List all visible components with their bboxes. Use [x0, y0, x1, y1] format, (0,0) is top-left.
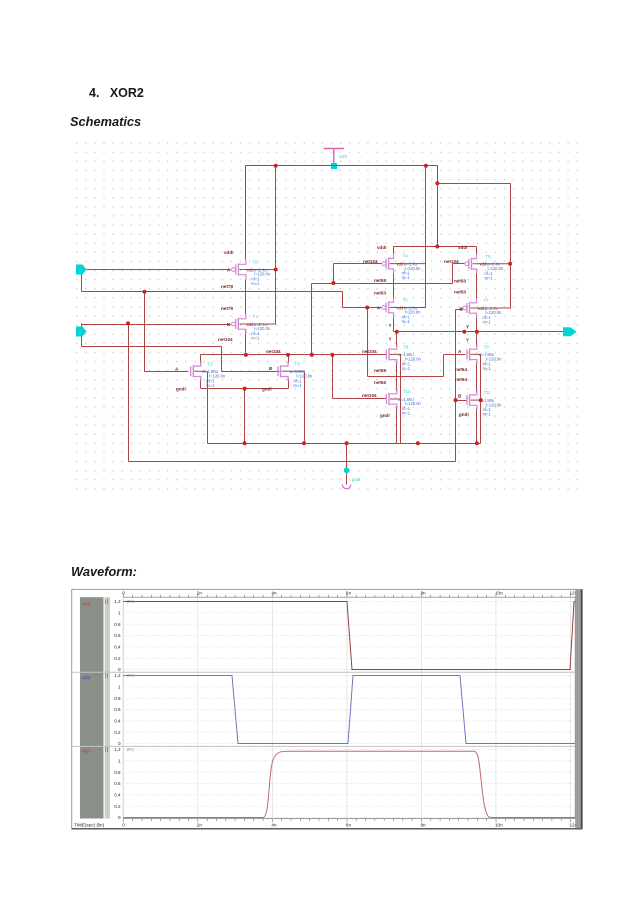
- svg-text:Y: Y: [389, 323, 392, 328]
- svg-text:m=1: m=1: [402, 275, 411, 280]
- svg-text:10n: 10n: [495, 823, 503, 828]
- svg-text:vdd!: vdd!: [458, 245, 468, 250]
- svg-text:m=1: m=1: [402, 319, 411, 324]
- wire T2/T3 source bus: [201, 388, 289, 390]
- trace v(y) (red, bottom plot): [123, 751, 575, 817]
- svg-text:net104: net104: [362, 393, 377, 398]
- wire T6 src to Y: [393, 316, 395, 332]
- node vdd rail / bulk riser 1 (junction dot): [274, 164, 278, 168]
- wire T11 source to gnd: [476, 408, 478, 444]
- wire bulk riser T0/T1: [275, 166, 277, 325]
- svg-text:0.4: 0.4: [114, 718, 121, 723]
- transistor T4 (PMOS): [382, 254, 426, 281]
- svg-text:0: 0: [122, 591, 125, 596]
- svg-text:T8: T8: [403, 344, 409, 349]
- wire T4 gate riser: [333, 264, 335, 284]
- node vdd rail / bulk riser 2 (junction dot): [424, 164, 428, 168]
- wire A drop: [81, 270, 83, 292]
- svg-text:0: 0: [118, 667, 121, 672]
- trace v(b) (blue, middle plot): [123, 676, 575, 744]
- wire T5 drain: [476, 247, 478, 257]
- wire net55/56 T8.src-T10.drn: [396, 362, 398, 392]
- svg-text:m=1: m=1: [485, 275, 494, 280]
- wire T5 gate riser: [452, 264, 454, 284]
- svg-text:Y: Y: [466, 325, 469, 330]
- svg-text:6n: 6n: [346, 823, 352, 828]
- wire output Y rail: [394, 331, 564, 333]
- svg-text:vdd!: vdd!: [377, 245, 387, 250]
- wire A riser to T9: [443, 355, 445, 377]
- svg-text:T3: T3: [295, 361, 301, 366]
- svg-text:0.2: 0.2: [114, 730, 121, 735]
- node T2/T3 source tee (junction dot): [243, 387, 247, 391]
- svg-text:net54: net54: [455, 367, 467, 372]
- svg-text:m=1: m=1: [402, 366, 411, 371]
- transistor T9 (NMOS): [467, 344, 502, 371]
- svg-text:gnd!: gnd!: [352, 477, 360, 482]
- wire B long riser down: [128, 324, 130, 462]
- wire T3 drain: [288, 355, 290, 364]
- svg-text:1.2: 1.2: [114, 599, 121, 604]
- transistor T11 (NMOS): [467, 390, 502, 417]
- svg-text:T11: T11: [484, 390, 492, 395]
- wire T2 drain: [200, 355, 202, 364]
- wire A drop to T6: [342, 292, 344, 308]
- svg-text:m=1: m=1: [251, 281, 260, 286]
- wire B horizontal to T3: [82, 346, 222, 348]
- node net B tee (junction dot): [126, 321, 130, 325]
- wire T11 gate wire: [456, 400, 467, 402]
- wire B riser to T7/T11: [455, 310, 457, 462]
- time axis labels and ticks: [74, 591, 578, 828]
- wire T3 gate wire: [222, 371, 280, 373]
- wire gnd symbol stem: [346, 444, 348, 485]
- node gnd symbol tap (junction dot): [345, 441, 349, 445]
- svg-text:1: 1: [118, 758, 121, 763]
- wire bulk riser T4/T6: [425, 166, 427, 308]
- wire T10 gate wire: [333, 398, 387, 400]
- svg-text:m=1: m=1: [483, 320, 492, 325]
- pin A (input, left top): [76, 265, 87, 275]
- wire T4 gate wire: [334, 263, 385, 265]
- wire T9 gate wire: [444, 354, 466, 356]
- svg-text:TIME(sec) (lin): TIME(sec) (lin): [74, 823, 105, 828]
- svg-text:0.6: 0.6: [114, 781, 121, 786]
- wire net53 T4.src-T6.drn: [393, 272, 395, 301]
- wire net104 drop to T10: [332, 355, 334, 399]
- wire net104 drop from T1: [245, 330, 247, 355]
- svg-text:1: 1: [118, 610, 121, 615]
- plot row separators: [72, 671, 583, 673]
- svg-text:2n: 2n: [197, 823, 203, 828]
- wire T3 source: [288, 379, 290, 389]
- wire T10 source to gnd: [396, 407, 398, 444]
- node T4 gate tap (junction dot): [331, 281, 335, 285]
- wire T7 src to Y: [476, 316, 478, 332]
- svg-text:vdd!: vdd!: [339, 154, 347, 159]
- svg-text:0: 0: [118, 741, 121, 746]
- transistor T8 (NMOS): [386, 344, 421, 371]
- wire T9 drain: [476, 332, 478, 347]
- wire vdd branch to T5/T7 bulk: [438, 183, 511, 185]
- svg-text:net79: net79: [221, 306, 233, 311]
- svg-text:0.8: 0.8: [114, 622, 121, 627]
- wire T6 gate wire: [343, 307, 387, 309]
- heading "4. XOR2": [89, 86, 144, 100]
- svg-text:m=1: m=1: [294, 383, 303, 388]
- heading "Waveform:": [71, 564, 137, 579]
- wire T2 source: [200, 379, 202, 389]
- transistor T5 (PMOS): [465, 254, 510, 281]
- wire net104 gate feed horizontal: [312, 283, 453, 285]
- svg-text:v(y): v(y): [82, 749, 90, 755]
- node gnd rail 3 (junction dot): [475, 441, 479, 445]
- waveform gridlines: [123, 597, 575, 820]
- svg-text:m=1: m=1: [402, 411, 411, 416]
- svg-text:0.2: 0.2: [114, 804, 121, 809]
- svg-text:0.4: 0.4: [114, 792, 121, 797]
- wire T8 drain: [396, 332, 398, 347]
- svg-text:net104: net104: [218, 337, 233, 342]
- node T5 bulk (junction dot): [508, 262, 512, 266]
- svg-text:net55: net55: [374, 278, 386, 283]
- y axis tick labels: [114, 599, 134, 820]
- svg-text:0.8: 0.8: [114, 696, 121, 701]
- wire A horizontal lower: [368, 376, 444, 378]
- node T0 bulk (junction dot): [274, 268, 278, 272]
- node gnd rail x418 (junction dot): [416, 441, 420, 445]
- wire bulk riser T8/T10: [400, 355, 402, 444]
- wire net104 riser up: [311, 284, 313, 355]
- transistor T0 (PMOS): [232, 260, 276, 287]
- wire T2 gate wire: [145, 371, 189, 373]
- node T11 gate tap (junction dot): [454, 398, 458, 402]
- svg-text:0: 0: [118, 815, 121, 820]
- waveform sidebar (signal list): [80, 597, 103, 818]
- wire A riser to T2 gate: [144, 292, 146, 372]
- pin B (input, left bottom): [76, 327, 87, 337]
- sidebar row marks: [106, 599, 108, 752]
- wire T3 bulk drop: [304, 372, 306, 444]
- node Y left junction (junction dot): [395, 330, 399, 334]
- svg-text:gnd!: gnd!: [380, 413, 390, 418]
- svg-text:8n: 8n: [421, 823, 427, 828]
- svg-text:m=1: m=1: [251, 336, 260, 341]
- svg-text:0: 0: [122, 823, 125, 828]
- node gnd rail 2 (junction dot): [302, 441, 306, 445]
- svg-text:T4: T4: [403, 254, 409, 259]
- wire A drop to lower block: [367, 308, 369, 377]
- svg-text:0.4: 0.4: [114, 644, 121, 649]
- node Y / T7-T9 (junction dot): [475, 330, 479, 334]
- svg-text:net50: net50: [454, 290, 466, 295]
- svg-text:m=1: m=1: [483, 366, 492, 371]
- node local vdd tee (junction dot): [435, 245, 439, 249]
- svg-text:T5: T5: [486, 254, 492, 259]
- transistor T3 (NMOS): [278, 361, 313, 388]
- svg-text:v(a): v(a): [82, 601, 91, 607]
- node T11 bulk (junction dot): [479, 398, 483, 402]
- wire bulk riser T9/T11: [480, 355, 482, 444]
- wire B drop: [81, 324, 83, 347]
- svg-text:net50: net50: [454, 279, 466, 284]
- svg-text:net55: net55: [374, 368, 386, 373]
- svg-text:0.2: 0.2: [114, 656, 121, 661]
- pin Y (output, right): [563, 327, 577, 336]
- wire net78 T0.src-T1.drn: [245, 280, 247, 315]
- wire input A to T0 gate: [87, 269, 231, 271]
- wire T7 gate wire: [456, 309, 466, 311]
- wire T4 drain: [393, 247, 395, 257]
- wire gnd drop center: [244, 389, 246, 444]
- wire local vdd rail (T4/T5): [394, 246, 477, 248]
- svg-text:v(b): v(b): [82, 675, 91, 681]
- svg-text:(lin): (lin): [127, 747, 134, 752]
- svg-text:0.8: 0.8: [114, 770, 121, 775]
- ground symbol (bottom): [342, 467, 360, 488]
- svg-text:T0: T0: [252, 260, 258, 265]
- wire vdd top rail: [246, 165, 438, 167]
- svg-text:T10: T10: [403, 389, 411, 394]
- svg-text:vdd!: vdd!: [224, 250, 234, 255]
- svg-text:T1: T1: [252, 314, 258, 319]
- svg-text:T2: T2: [207, 361, 213, 366]
- wire B drop to T3 gate: [221, 347, 223, 372]
- panel bottom border: [72, 828, 583, 830]
- transistor T7 (PMOS): [463, 298, 510, 325]
- svg-text:m=1: m=1: [483, 412, 492, 417]
- svg-text:gnd!: gnd!: [176, 387, 186, 392]
- transistor T1 (PMOS): [232, 314, 276, 341]
- wire T2 bulk drop: [207, 372, 209, 444]
- wire net B bottom horizontal: [129, 461, 456, 463]
- wire net50 T5.src-T7.drn: [476, 272, 478, 301]
- trace v(a) (dark red, top plot): [123, 602, 575, 670]
- heading "Schematics": [70, 114, 141, 129]
- svg-text:net104: net104: [362, 349, 377, 354]
- transistor T2 (NMOS): [191, 361, 226, 388]
- node net104 drop (junction dot): [330, 353, 334, 357]
- wire net104 rail: [201, 354, 387, 356]
- node vdd branch (junction dot): [435, 181, 439, 185]
- transistor T6 (PMOS): [382, 298, 426, 325]
- transistor T10 (NMOS): [386, 389, 421, 416]
- wire T5 gate wire: [453, 263, 467, 265]
- node T6 gate tee (junction dot): [365, 306, 369, 310]
- power symbol vdd (top): [324, 149, 347, 170]
- node gnd rail 1 (junction dot): [243, 441, 247, 445]
- wire bulk riser T5/T7: [510, 184, 512, 309]
- wire gnd rail: [208, 443, 481, 445]
- node Y mid junction (junction dot): [462, 330, 466, 334]
- svg-text:m=1: m=1: [206, 383, 215, 388]
- node net A tee (junction dot): [143, 290, 147, 294]
- schematic canvas dotted grid: [74, 141, 583, 495]
- svg-text:net104: net104: [266, 349, 281, 354]
- wire net94 T9.src-T11.drn: [476, 362, 478, 393]
- svg-text:net104: net104: [363, 259, 378, 264]
- svg-text:Y: Y: [466, 338, 469, 343]
- svg-text:Y: Y: [389, 337, 392, 342]
- svg-text:net53: net53: [374, 291, 386, 296]
- svg-text:gnd!: gnd!: [262, 387, 272, 392]
- svg-text:4n: 4n: [271, 823, 277, 828]
- wire input B to T1 gate: [82, 324, 231, 326]
- node net104 / T1 (junction dot): [244, 353, 248, 357]
- wire vdd right drop: [437, 166, 439, 247]
- svg-text:T6: T6: [403, 298, 409, 303]
- svg-text:T7: T7: [484, 298, 490, 303]
- svg-text:net94: net94: [455, 377, 467, 382]
- svg-text:1.2: 1.2: [114, 747, 121, 752]
- node net104 riser (junction dot): [310, 353, 314, 357]
- panel right scrollbar strip: [575, 589, 582, 828]
- svg-text:1: 1: [118, 684, 121, 689]
- waveform panel frame: [72, 589, 583, 828]
- svg-text:net104: net104: [444, 259, 459, 264]
- svg-text:net78: net78: [221, 284, 233, 289]
- svg-text:0.6: 0.6: [114, 707, 121, 712]
- wire net A horizontal: [82, 291, 343, 293]
- svg-text:T9: T9: [484, 344, 490, 349]
- node net104 / T3 (junction dot): [286, 353, 290, 357]
- svg-text:gnd!: gnd!: [459, 412, 469, 417]
- wire vdd to T0 drain: [245, 166, 247, 260]
- svg-text:1.2: 1.2: [114, 673, 121, 678]
- svg-text:0.6: 0.6: [114, 633, 121, 638]
- svg-text:net56: net56: [374, 380, 386, 385]
